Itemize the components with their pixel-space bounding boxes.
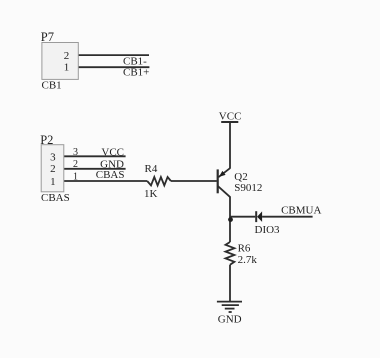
- svg-text:CBAS: CBAS: [96, 169, 125, 181]
- svg-text:VCC: VCC: [219, 111, 242, 123]
- svg-text:R4: R4: [145, 163, 158, 175]
- svg-text:2: 2: [64, 50, 70, 62]
- svg-text:CBMUA: CBMUA: [281, 205, 321, 217]
- svg-text:1: 1: [64, 62, 70, 74]
- svg-text:P7: P7: [41, 30, 54, 44]
- svg-text:1: 1: [73, 171, 78, 182]
- svg-text:3: 3: [73, 147, 78, 158]
- svg-text:CBAS: CBAS: [41, 192, 70, 204]
- svg-text:P2: P2: [40, 133, 53, 147]
- svg-text:CB1: CB1: [42, 80, 62, 92]
- svg-text:3: 3: [50, 151, 56, 163]
- svg-text:CB1+: CB1+: [123, 67, 149, 79]
- svg-text:2.7k: 2.7k: [238, 254, 258, 266]
- svg-text:GND: GND: [218, 314, 242, 326]
- svg-text:2: 2: [73, 159, 78, 170]
- svg-text:VCC: VCC: [101, 146, 124, 158]
- svg-text:1: 1: [50, 176, 56, 188]
- svg-text:R6: R6: [238, 242, 251, 254]
- svg-text:1K: 1K: [144, 188, 158, 200]
- svg-text:S9012: S9012: [234, 182, 262, 194]
- svg-text:2: 2: [50, 163, 56, 175]
- svg-text:DIO3: DIO3: [255, 224, 281, 236]
